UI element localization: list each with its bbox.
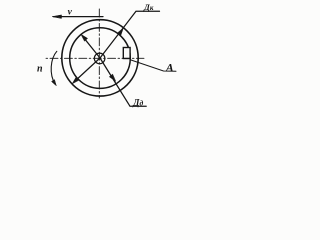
svg-text:Дд: Дд (132, 97, 143, 107)
hub center dot (98, 57, 101, 60)
arrowhead Dk NE (117, 28, 123, 36)
horizontal centerline (46, 57, 144, 59)
svg-text:Дк: Дк (143, 2, 154, 12)
svg-text:n: n (37, 64, 43, 75)
svg-text:А: А (165, 61, 174, 75)
leader to label A (131, 60, 176, 71)
arrowhead Dk SW (72, 77, 79, 84)
dimension line Dk: NE ray with leader to label (100, 11, 160, 58)
arrowhead Dd SE (109, 74, 115, 81)
wheel outer circle (62, 20, 138, 96)
hub circle (94, 53, 105, 64)
vertical centerline (98, 9, 100, 98)
wheel inner circle (70, 28, 131, 89)
arrowhead Dd NW (81, 34, 88, 41)
arrowhead v (52, 15, 61, 18)
wire v speed arrow line (54, 16, 104, 18)
dimension line Dk: SW ray (75, 58, 101, 82)
rotation arc n (51, 51, 57, 84)
dimension line Dd: NW ray (83, 37, 100, 58)
arrowhead n (52, 80, 57, 86)
workpiece rect A (123, 48, 130, 59)
dimension line Dd: SE ray with leader to label (100, 58, 146, 106)
